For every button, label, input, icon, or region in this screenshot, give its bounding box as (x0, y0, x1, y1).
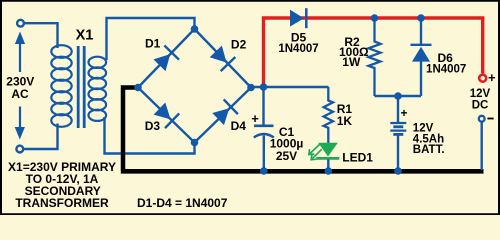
label: C1 1000u 25V (270, 125, 304, 163)
resistor R2 (369, 18, 381, 96)
svg-text:TRANSFORMER: TRANSFORMER (15, 196, 109, 210)
node: R2 on red rail (371, 14, 379, 22)
terminal: +12V DC output (479, 75, 486, 82)
svg-text:DC: DC (472, 99, 489, 111)
LED1 (316, 143, 339, 170)
wire: R2 bottom to D6 bottom (375, 95, 422, 97)
node: D6 on red rail (417, 14, 425, 22)
label: 12V DC (470, 88, 491, 111)
label: R2 100ohm 1W (339, 35, 369, 69)
svg-text:1N4007: 1N4007 (278, 43, 318, 55)
wire: secondary bottom to bridge bottom node (105, 117, 195, 154)
svg-text:1K: 1K (337, 114, 353, 128)
diode D6 (411, 18, 432, 96)
node: LED1 on rail (325, 167, 333, 175)
terminal: AC input top (17, 20, 24, 27)
wire: positive node to R1 (251, 86, 329, 88)
svg-text:1N4007: 1N4007 (426, 64, 466, 76)
node: C1 on rail (260, 167, 268, 175)
label: 230V AC (6, 75, 34, 101)
wire: secondary top to bridge top node (107, 18, 195, 60)
transformer X1 secondary winding (89, 57, 107, 121)
terminal: AC input bottom (16, 146, 23, 153)
wire: bottom terminal to X1 primary (24, 124, 58, 150)
label: 12V 4.5Ah BATT. (413, 122, 445, 156)
capacitor C1 (254, 126, 274, 170)
diode D4 (211, 99, 238, 126)
svg-text:LED1: LED1 (342, 151, 373, 165)
svg-text:D4: D4 (231, 119, 247, 133)
terminal: negative DC output (479, 116, 485, 122)
wire: negative terminal to rail (481, 122, 483, 171)
node: bridge bottom vertex (191, 139, 199, 147)
svg-text:+: + (488, 70, 496, 85)
node: positive junction at red rail (260, 83, 268, 91)
wire: top terminal to X1 primary (24, 23, 57, 48)
svg-text:+: + (251, 111, 259, 126)
wire: positive node down to C1 (262, 87, 264, 125)
node: bridge left vertex (134, 84, 142, 92)
wire: bridge negative output (black) down to rail (123, 88, 139, 170)
label: D6 1N4007 (426, 51, 466, 76)
svg-text:D3: D3 (145, 119, 161, 133)
svg-text:1W: 1W (342, 55, 361, 69)
svg-text:BATT.: BATT. (413, 144, 445, 156)
transformer X1 primary winding (51, 45, 71, 127)
battery 12V 4.5Ah (390, 96, 406, 170)
diode D3 (152, 101, 179, 128)
svg-text:AC: AC (11, 87, 29, 101)
resistor R1 (324, 87, 333, 143)
label: transformer spec caption (8, 160, 116, 210)
svg-text:X1: X1 (76, 27, 94, 43)
wire: negative bottom rail (black) (121, 169, 484, 174)
svg-text:D1: D1 (145, 36, 161, 50)
node: bridge right vertex (247, 84, 255, 92)
diode D5 (290, 8, 306, 28)
node: bridge top vertex (191, 25, 199, 33)
230V AC mains double-headed arrow (15, 32, 25, 140)
diode D2 (208, 44, 235, 71)
transformer X1 core (78, 46, 84, 128)
svg-text:12V: 12V (470, 88, 491, 100)
label: output polarity - (487, 118, 493, 120)
diode D1 (152, 46, 179, 73)
label: D5 1N4007 (278, 30, 318, 55)
svg-text:+: + (400, 106, 407, 120)
node: battery junction (394, 92, 402, 100)
label: R1 1K (337, 102, 353, 128)
svg-text:D1-D4 = 1N4007: D1-D4 = 1N4007 (137, 196, 228, 210)
LED1 emission arrows (309, 144, 321, 159)
svg-text:D2: D2 (231, 38, 247, 52)
wire: bridge rectifier diamond (138, 29, 251, 143)
svg-text:25V: 25V (276, 149, 297, 163)
wire: positive rail (red) through D5 to + output (264, 18, 483, 87)
node: battery on rail (394, 167, 402, 175)
